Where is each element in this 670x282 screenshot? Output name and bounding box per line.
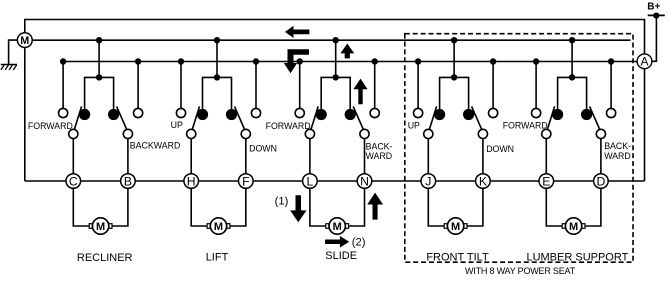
connector L [303,174,318,189]
wire: connector F to motor 3 [230,188,246,226]
contact: group 5 left pivot [542,129,551,138]
svg-text:N: N [360,174,369,188]
motor M6 (Lumber Support) [562,218,585,234]
connector J [421,174,436,189]
junction: group 2 right outer on bus 3 [253,58,259,64]
switch arm: group 3 right [353,106,364,130]
junction: group 3 stem on bus 2 [333,37,339,43]
svg-text:H: H [187,174,196,188]
arrow: (1) down (slide motor feed) [290,195,306,222]
svg-text:B: B [124,174,132,188]
svg-text:FRONT TILT: FRONT TILT [426,251,489,263]
wire: B+ to connector A [652,16,657,62]
contact: group 4 outer left (open) [414,108,423,117]
contact: group 2 inner right (closed) [226,109,237,120]
switch arm: group 5 left [547,106,555,130]
contact: group 1 inner left (closed) [79,109,90,120]
connector A [637,54,652,69]
svg-text:(2): (2) [352,236,366,248]
junction: group 4 right outer on bus 3 [490,58,496,64]
contact: group 5 inner right (closed) [581,109,592,120]
wire: connector E to motor 6 [546,188,562,226]
junction: group 3 left outer on bus 3 [297,58,303,64]
arrow: down-turn (L-shaped) [284,49,309,73]
wire: B+ bus line 1 (top) [25,20,645,54]
svg-text:M: M [96,221,105,233]
wire: group 4 common bridge [440,77,469,109]
motor M1 (seat motor, top left) [17,33,32,48]
junction: group 3 common bridge [333,74,339,80]
svg-text:M: M [333,221,342,233]
switch arm: group 2 left [192,106,200,130]
motor M4 (Slide) [326,218,349,234]
contact: group 3 left pivot [305,129,314,138]
wire: group 3 right pivot to connector N [364,139,366,174]
svg-text:(1): (1) [275,195,289,207]
svg-text:WARD: WARD [366,151,393,161]
wire: group 4 common stem from bus 2 [453,40,455,77]
svg-text:BACKWARD: BACKWARD [130,140,181,150]
contact: group 5 outer right (open) [607,108,616,117]
switch arm: group 5 right [590,106,601,130]
contact: group 3 outer right (open) [370,108,379,117]
ground [1,65,17,70]
wire: connector K to motor 5 [467,188,483,226]
wire: bus line 2 (switch common feed) [32,39,630,41]
wire: group 2 right pivot to connector F [245,139,247,174]
svg-text:M: M [214,221,223,233]
wire: group 2 right outer stem from bus 3 [255,62,257,109]
label: slide BACK-WARD [366,141,393,161]
arrow: small up (at slide stem) [340,44,354,59]
junction: group 4 stem on bus 2 [451,37,457,43]
wire: M1 to ground [9,40,18,64]
contact: group 5 outer left (open) [532,108,541,117]
wire: connector N to motor 4 [349,188,365,226]
connector K [476,174,491,189]
junction: group 4 left outer on bus 3 [415,58,421,64]
svg-text:LUMBER SUPPORT: LUMBER SUPPORT [526,251,628,263]
wire: group 5 right outer stem from bus 3 [610,62,612,109]
contact: group 3 inner right (closed) [345,109,356,120]
switch arm: group 2 right [235,106,246,130]
wire: group 4 left pivot to connector J [427,139,429,174]
label: lumber support BACK-WARD [604,141,631,161]
contact: group 3 inner left (closed) [316,109,327,120]
contact: group 4 inner right (closed) [463,109,474,120]
junction: group 5 stem on bus 2 [569,37,575,43]
svg-text:C: C [69,174,78,188]
contact: group 1 outer left (open) [59,108,68,117]
contact: group 1 inner right (closed) [108,109,119,120]
switch arm: group 4 left [429,106,437,130]
svg-text:UP: UP [408,120,420,130]
wire: group 3 left pivot to connector L [309,139,311,174]
wire: connector H to motor 3 [191,188,207,226]
junction: group 1 common bridge [96,74,102,80]
wire: group 2 left pivot to connector H [190,139,192,174]
junction: group 2 left outer on bus 3 [178,58,184,64]
svg-text:LIFT: LIFT [206,252,229,264]
junction: group 4 common bridge [451,74,457,80]
motor M2 (Recliner) [89,218,112,234]
wire: group 3 right outer stem from bus 3 [374,62,376,109]
wire: group 3 common bridge [321,77,350,109]
wire: connector C to motor 2 [73,188,89,226]
arrow: (2) right (slide motor return) [325,236,349,248]
contact: group 2 inner left (closed) [197,109,208,120]
wire: M1 to bottom bus [24,48,26,182]
dashed box: 8-way power seat option [405,34,633,263]
wire: group 4 left outer stem from bus 3 [417,62,419,109]
svg-text:BACK-: BACK- [604,141,631,151]
contact: group 4 right pivot [478,129,487,138]
svg-text:A: A [640,55,648,69]
junction: group 1 stem on bus 2 [96,37,102,43]
svg-text:DOWN: DOWN [486,144,514,154]
svg-text:DOWN: DOWN [249,143,277,153]
junction: group 2 common bridge [214,74,220,80]
contact: group 5 right pivot [596,129,605,138]
wire: group 2 common stem from bus 2 [216,40,218,77]
switch arm: group 1 right [117,106,128,130]
wire: connector L to motor 4 [310,188,326,226]
wire: bottom bus (connector row) [25,180,645,182]
contact: group 2 left pivot [187,129,196,138]
junction: group 3 right outer on bus 3 [372,58,378,64]
wire: group 4 right outer stem from bus 3 [492,62,494,109]
contact: group 4 outer right (open) [489,108,498,117]
svg-text:FORWARD: FORWARD [266,121,311,131]
connector D [594,174,609,189]
wire: connector J to motor 5 [428,188,444,226]
svg-text:FORWARD: FORWARD [503,121,548,131]
connector N [357,174,372,189]
junction: group 5 right outer on bus 3 [608,58,614,64]
wire: bus line 3 (to connector A) [63,61,637,63]
contact: group 1 right pivot [123,129,132,138]
connector E [539,174,554,189]
connector C [66,174,81,189]
svg-text:SLIDE: SLIDE [325,250,357,262]
contact: group 4 left pivot [424,129,433,138]
svg-text:RECLINER: RECLINER [77,252,133,264]
switch arm: group 1 left [74,106,82,130]
wire: connector D to motor 6 [585,188,601,226]
switch arm: group 3 left [311,106,319,130]
wire: group 1 left outer stem from bus 3 [62,62,64,109]
motor M5 (Front Tilt) [444,218,467,234]
contact: group 2 outer left (open) [176,108,185,117]
wire: group 1 right pivot to connector B [127,139,129,174]
svg-text:WITH 8 WAY POWER SEAT: WITH 8 WAY POWER SEAT [465,266,576,276]
arrow: left (slide direction on bus 2) [285,26,309,38]
wire: group 2 common bridge [203,77,232,109]
arrow: up (right of slide bridge) [353,79,367,105]
wire: connector B to motor 2 [112,188,128,226]
svg-text:UP: UP [171,120,183,130]
contact: group 2 outer right (open) [251,108,260,117]
B+ terminal [647,2,665,19]
wire: group 3 common stem from bus 2 [335,40,337,77]
junction: group 2 stem on bus 2 [214,37,220,43]
svg-text:E: E [542,174,550,188]
junction: group 5 common bridge [569,74,575,80]
wire: A to bottom bus [644,69,646,181]
junction: group 1 left outer on bus 3 [60,58,66,64]
wire: group 5 right pivot to connector D [600,139,602,174]
svg-text:M: M [569,221,578,233]
wire: group 4 right pivot to connector K [482,139,484,174]
svg-text:L: L [307,174,314,188]
wire: group 5 left pivot to connector E [545,139,547,174]
contact: group 5 inner left (closed) [552,109,563,120]
svg-text:M: M [451,221,460,233]
contact: group 1 left pivot [69,129,78,138]
svg-text:M: M [20,35,29,47]
contact: group 2 right pivot [241,129,250,138]
junction: group 5 left outer on bus 3 [533,58,539,64]
wire: group 5 common bridge [558,77,587,109]
wire: group 1 common bridge [85,77,114,109]
svg-text:F: F [242,174,249,188]
contact: group 3 right pivot [360,129,369,138]
motor M3 (Lift) [207,218,230,234]
svg-text:FORWARD: FORWARD [28,121,73,131]
svg-text:K: K [479,174,487,188]
svg-text:D: D [596,174,605,188]
arrow: up (right of connector N) [367,193,383,220]
wire: group 1 right outer stem from bus 3 [137,62,139,109]
svg-text:WARD: WARD [604,151,631,161]
wire: group 2 left outer stem from bus 3 [180,62,182,109]
connector H [184,174,199,189]
wire: group 1 left pivot to connector C [72,139,74,174]
switch arm: group 4 right [472,106,483,130]
contact: group 3 outer left (open) [295,108,304,117]
svg-text:BACK-: BACK- [366,141,393,151]
connector F [239,174,254,189]
junction: group 1 right outer on bus 3 [135,58,141,64]
wire: group 5 common stem from bus 2 [571,40,573,77]
contact: group 4 inner left (closed) [434,109,445,120]
svg-text:B+: B+ [647,2,660,13]
wire: group 5 left outer stem from bus 3 [535,62,537,109]
contact: group 1 outer right (open) [134,108,143,117]
svg-text:J: J [425,174,431,188]
connector B [121,174,136,189]
wire: group 3 left outer stem from bus 3 [299,62,301,109]
wire: group 1 common stem from bus 2 [98,40,100,77]
